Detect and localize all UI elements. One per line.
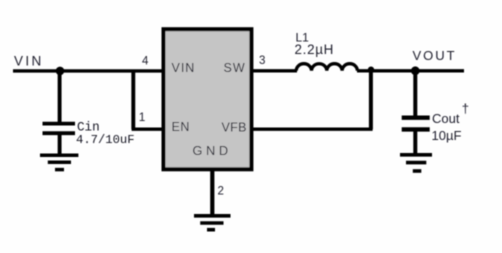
svg-text:4.7/10uF: 4.7/10uF xyxy=(76,133,135,147)
svg-text:2.2µH: 2.2µH xyxy=(295,42,335,57)
svg-text:Cout: Cout xyxy=(432,111,460,126)
capacitor Cin xyxy=(43,71,76,154)
wire VFB return xyxy=(252,127,373,130)
svg-text:VIN: VIN xyxy=(172,61,196,75)
wire EN branch horizontal xyxy=(132,127,163,130)
wire SW output xyxy=(252,69,297,72)
svg-text:VOUT: VOUT xyxy=(413,48,457,63)
svg-text:1: 1 xyxy=(139,110,146,124)
wire EN branch vertical xyxy=(131,71,135,129)
svg-text:10µF: 10µF xyxy=(432,128,462,143)
ground (Cin) xyxy=(40,155,78,169)
svg-text:4: 4 xyxy=(142,56,149,68)
svg-text:VFB: VFB xyxy=(222,121,247,135)
svg-text:3: 3 xyxy=(259,55,265,67)
junction node VIN/Cin xyxy=(56,67,65,76)
svg-text:SW: SW xyxy=(224,61,246,75)
wire L1 to VOUT xyxy=(357,69,464,72)
capacitor Cout xyxy=(402,71,430,154)
wire VIN input xyxy=(13,69,163,72)
svg-text:EN: EN xyxy=(172,120,190,134)
ground (IC pin 2) xyxy=(194,216,231,230)
wire feedback vertical xyxy=(369,71,373,129)
junction node VOUT/Cout xyxy=(411,66,420,75)
wire GND pin 2 xyxy=(210,169,214,215)
junction node feedback tap xyxy=(368,67,374,73)
IC U1 body xyxy=(164,29,252,169)
svg-text:VIN: VIN xyxy=(14,53,44,68)
svg-text:†: † xyxy=(462,101,469,116)
svg-text:GND: GND xyxy=(193,143,232,158)
inductor L1 xyxy=(296,64,357,71)
ground (Cout) xyxy=(400,155,432,171)
svg-text:2: 2 xyxy=(218,186,224,198)
